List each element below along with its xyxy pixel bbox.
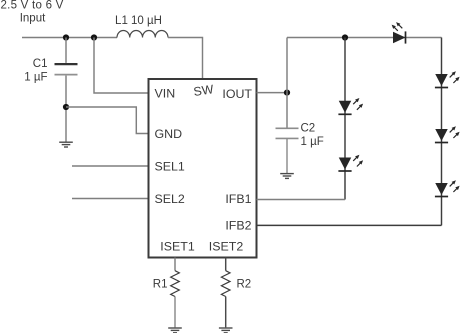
LED D6 (right string, lower) bbox=[435, 180, 460, 196]
ground: below R2 bbox=[219, 328, 233, 333]
LED D1 (horizontal, top rail) bbox=[392, 22, 406, 43]
LED D2 (middle string, upper) bbox=[338, 98, 363, 114]
svg-text:C2: C2 bbox=[301, 123, 316, 135]
wire: SEL1 bbox=[72, 165, 149, 167]
op-amp U1: driver IC box bbox=[149, 79, 257, 258]
wire: IOUT output bbox=[257, 92, 288, 94]
svg-text:R1: R1 bbox=[153, 278, 168, 290]
ground: below R1 bbox=[168, 328, 182, 333]
svg-text:VIN: VIN bbox=[155, 86, 176, 100]
wire: IFB1 return bbox=[257, 199, 346, 201]
wire: SEL2 bbox=[72, 198, 149, 200]
svg-text:1 µF: 1 µF bbox=[301, 136, 324, 148]
ground: below C2 bbox=[280, 174, 294, 179]
wire: IFB2 return bbox=[257, 224, 442, 226]
svg-text:IFB2: IFB2 bbox=[225, 218, 251, 232]
svg-text:ISET2: ISET2 bbox=[209, 239, 244, 253]
node: junction dot at VIN tap bbox=[91, 34, 97, 40]
wire: VIN branch bbox=[94, 38, 149, 94]
wire: right LED string bbox=[441, 38, 443, 226]
wire: inductor to SW pin bbox=[168, 38, 203, 80]
wire: GND branch bbox=[66, 107, 149, 134]
svg-text:SEL2: SEL2 bbox=[155, 192, 185, 206]
svg-text:GND: GND bbox=[155, 127, 183, 141]
ground: below C1 bbox=[59, 142, 73, 147]
node: junction dot at GND tap bbox=[63, 104, 69, 110]
wire: R2 to ground bbox=[225, 297, 227, 328]
node: junction dot at C1 tap bbox=[63, 34, 69, 40]
svg-text:SEL1: SEL1 bbox=[155, 159, 185, 173]
LED D3 (middle string, lower) bbox=[338, 155, 363, 171]
node: junction dot at middle LED string tap bbox=[342, 34, 348, 40]
node: junction dot at IOUT / C2 bbox=[284, 90, 290, 96]
svg-text:1 µF: 1 µF bbox=[24, 71, 47, 83]
svg-text:L1 10 µH: L1 10 µH bbox=[115, 15, 162, 27]
wire: ISET1 to R1 bbox=[174, 258, 176, 271]
wire: ISET2 to R2 bbox=[225, 258, 227, 271]
wire: IOUT up to LED rail bbox=[286, 38, 288, 93]
LED D5 (right string, middle) bbox=[435, 126, 460, 142]
svg-text:R2: R2 bbox=[237, 278, 252, 290]
svg-text:IFB1: IFB1 bbox=[225, 192, 251, 206]
wire: input rail bbox=[22, 37, 117, 39]
LED D4 (right string, upper) bbox=[435, 71, 460, 87]
svg-text:C1: C1 bbox=[33, 58, 48, 70]
svg-text:IOUT: IOUT bbox=[222, 87, 252, 101]
svg-text:SW: SW bbox=[193, 82, 215, 99]
svg-text:2.5 V to 6 V: 2.5 V to 6 V bbox=[1, 0, 64, 12]
svg-text:ISET1: ISET1 bbox=[160, 239, 195, 253]
wire: top LED rail bbox=[287, 37, 442, 39]
wire: middle LED string bbox=[344, 38, 346, 200]
svg-text:Input: Input bbox=[20, 12, 46, 24]
wire: R1 to ground bbox=[174, 297, 176, 328]
